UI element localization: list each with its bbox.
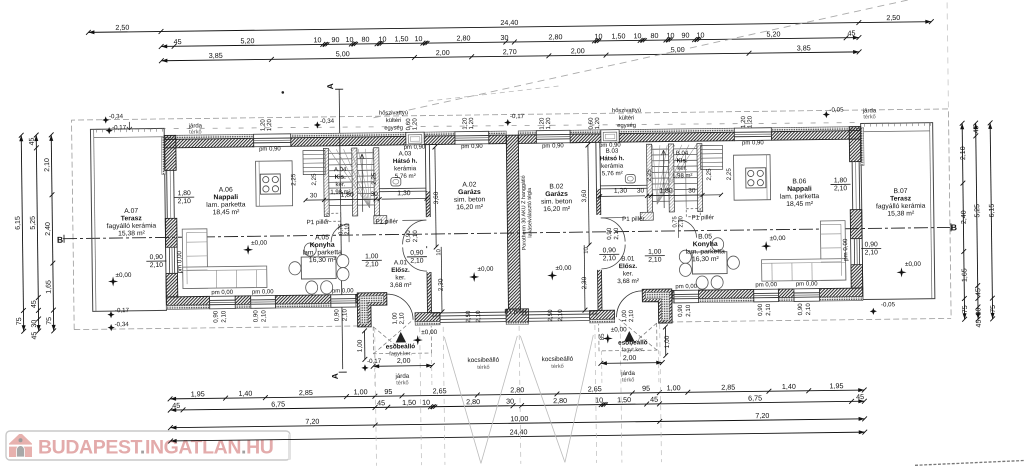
south wall A window 1 — [210, 296, 236, 309]
kitchen counter A with stove — [256, 161, 293, 206]
south wall A window 2 — [251, 296, 276, 309]
west corner outer insulation strip — [161, 136, 165, 174]
svg-text:B.04: B.04 — [676, 151, 689, 157]
stair block B — [697, 144, 703, 212]
garage A west wall — [424, 145, 427, 217]
svg-text:Nappali: Nappali — [787, 186, 812, 193]
svg-text:pm 0,90: pm 0,90 — [742, 140, 764, 146]
svg-text:1,80: 1,80 — [178, 190, 192, 197]
dim row bottom 7,20 / 10,00 / 7,20 — [170, 419, 864, 428]
svg-text:2,50: 2,50 — [886, 13, 900, 22]
east wall segments — [849, 127, 861, 162]
svg-text:±0,00: ±0,00 — [905, 261, 921, 268]
svg-text:kültéri: kültéri — [386, 118, 402, 124]
svg-text:2,80: 2,80 — [466, 397, 480, 406]
svg-text:lam. parketta: lam. parketta — [780, 193, 820, 201]
svg-text:térkő: térkő — [622, 377, 635, 383]
svg-text:Hátsó h.: Hátsó h. — [393, 158, 418, 165]
terrace A edge arrow — [127, 122, 132, 130]
svg-text:egység: egység — [617, 123, 636, 129]
svg-text:45: 45 — [650, 395, 658, 404]
room A.03 south partition — [379, 187, 425, 190]
svg-text:B.06: B.06 — [792, 178, 806, 185]
svg-text:pm 0,00: pm 0,00 — [842, 238, 849, 261]
svg-text:16,30 m²: 16,30 m² — [309, 257, 337, 264]
svg-text:P1 pillér: P1 pillér — [307, 219, 329, 226]
svg-text:80: 80 — [361, 35, 369, 44]
walkway dashed edge along north facade — [96, 120, 857, 133]
section line A-A — [339, 89, 343, 369]
svg-text:2,10: 2,10 — [410, 258, 424, 265]
south wall B window 2 — [754, 289, 779, 302]
west wall window 0,90 — [166, 247, 178, 273]
svg-text:15,38 m²: 15,38 m² — [887, 210, 915, 217]
svg-text:3,68 m²: 3,68 m² — [617, 278, 639, 285]
dim 1,00 porch A vertical — [364, 331, 366, 359]
svg-text:fagyt.ker.: fagyt.ker. — [622, 347, 645, 353]
stair ladder piece A — [303, 150, 325, 174]
svg-text:pm 0,00: pm 0,00 — [675, 284, 697, 290]
svg-text:5,00: 5,00 — [336, 49, 350, 58]
porch A entrance door arc — [387, 294, 413, 320]
svg-text:30: 30 — [31, 320, 38, 328]
svg-text:1,98 m²: 1,98 m² — [672, 173, 692, 179]
svg-text:B.07: B.07 — [893, 188, 907, 195]
svg-text:1,50: 1,50 — [402, 398, 416, 407]
svg-text:A.07: A.07 — [124, 208, 138, 215]
south wall B window 1 — [674, 290, 699, 303]
svg-text:2,10: 2,10 — [475, 310, 482, 323]
svg-text:30: 30 — [310, 192, 318, 199]
porch A dashed slab — [373, 320, 431, 354]
west wall terrace door 1,80 — [166, 170, 169, 218]
svg-text:2,10: 2,10 — [648, 257, 662, 264]
dim col left inner 2,10/2,40/1,65/75 — [51, 135, 53, 331]
svg-text:hőszivattyú: hőszivattyú — [379, 110, 408, 116]
svg-text:ker.: ker. — [395, 274, 406, 281]
svg-text:1,30: 1,30 — [614, 188, 628, 195]
svg-text:járda: járda — [620, 370, 635, 377]
svg-text:2,10: 2,10 — [613, 227, 620, 240]
svg-text:10: 10 — [666, 31, 674, 40]
svg-text:járda: járda — [394, 373, 409, 380]
svg-text:fagyálló kerámia: fagyálló kerámia — [107, 223, 157, 231]
svg-text:2,10: 2,10 — [865, 249, 879, 256]
svg-text:45: 45 — [377, 398, 385, 407]
svg-text:2,00: 2,00 — [436, 48, 450, 57]
svg-text:3,60: 3,60 — [433, 191, 440, 204]
svg-text:1,00: 1,00 — [664, 335, 671, 348]
svg-text:2,65: 2,65 — [433, 386, 447, 395]
svg-text:A.03: A.03 — [399, 150, 412, 157]
room B.03 south partition — [600, 184, 646, 187]
dim row bottom total 24,40 — [171, 432, 865, 441]
svg-text:1,95: 1,95 — [829, 381, 843, 390]
svg-text:2,10: 2,10 — [260, 310, 267, 323]
south-east wall corner at porch B — [642, 289, 672, 323]
svg-text:Garázs: Garázs — [545, 191, 568, 198]
svg-text:2,10: 2,10 — [344, 223, 350, 234]
svg-text:térkő: térkő — [477, 365, 490, 371]
svg-text:1,20: 1,20 — [468, 117, 475, 130]
svg-text:2,10: 2,10 — [685, 304, 692, 317]
svg-text:45: 45 — [975, 288, 982, 296]
svg-text:16,20 m²: 16,20 m² — [456, 204, 484, 211]
north wall heat-pump recess B — [601, 130, 619, 143]
svg-text:16,20 m²: 16,20 m² — [543, 206, 571, 213]
svg-text:1,00: 1,00 — [365, 253, 379, 260]
svg-text:kerámia: kerámia — [394, 165, 417, 172]
svg-text:esőbeálló: esőbeálló — [386, 343, 416, 350]
svg-text:2,10: 2,10 — [44, 158, 51, 172]
svg-text:30: 30 — [500, 33, 508, 42]
svg-text:±0,00: ±0,00 — [611, 326, 627, 333]
svg-text:1,40: 1,40 — [238, 389, 252, 398]
stair block A — [323, 148, 329, 216]
garage A doors arcs — [402, 220, 426, 244]
svg-text:3,85: 3,85 — [209, 51, 223, 60]
svg-text:P1 pillér: P1 pillér — [692, 214, 714, 221]
terrace B.07 outline — [861, 123, 935, 300]
north arrow triangle porch A — [396, 332, 407, 343]
south wall B segments — [672, 290, 674, 299]
north wall window A2 pm 0,90 — [455, 131, 489, 144]
svg-text:24,40: 24,40 — [500, 18, 518, 27]
svg-text:45: 45 — [173, 37, 181, 46]
east wall window 0,90 — [851, 239, 863, 265]
svg-text:1,00: 1,00 — [648, 249, 662, 256]
carport front edge lines — [440, 318, 506, 321]
svg-text:2,10: 2,10 — [805, 303, 812, 316]
svg-text:2,10: 2,10 — [412, 230, 419, 243]
svg-text:3,68 m²: 3,68 m² — [390, 282, 412, 289]
svg-text:0,90: 0,90 — [797, 303, 804, 316]
svg-text:pm 0,00: pm 0,00 — [211, 290, 233, 296]
svg-text:pm 0,00: pm 0,00 — [796, 281, 818, 287]
svg-text:B: B — [951, 222, 957, 232]
svg-text:2,10: 2,10 — [765, 303, 772, 316]
svg-text:2,25: 2,25 — [311, 173, 318, 186]
svg-text:7,20: 7,20 — [755, 411, 769, 420]
garage A door opening — [432, 311, 509, 314]
svg-text:30: 30 — [371, 191, 379, 198]
watermark logo box budapest.ingatlan.hu — [6, 431, 290, 460]
svg-text:1,00: 1,00 — [667, 383, 681, 392]
svg-text:1,00: 1,00 — [357, 339, 364, 352]
svg-text:A.06: A.06 — [219, 187, 233, 194]
dim 2,00 porch B — [601, 362, 662, 365]
svg-text:Garázs: Garázs — [458, 189, 481, 196]
svg-text:1,20: 1,20 — [545, 117, 552, 130]
level marks ±0,00 stars — [108, 276, 118, 286]
svg-text:2,10: 2,10 — [220, 310, 227, 323]
south wall A window 3 — [331, 294, 356, 307]
carport swept-path V lines — [444, 336, 481, 463]
svg-text:±0,00: ±0,00 — [251, 240, 267, 247]
svg-text:2,10: 2,10 — [178, 198, 192, 205]
dim row bottom 45 / 6,75 / ... / 6,75 / 45 — [170, 401, 864, 410]
svg-text:térkő: térkő — [396, 380, 409, 386]
page edge artifact bottom right — [915, 461, 1024, 466]
svg-text:sim. beton: sim. beton — [541, 198, 573, 205]
svg-text:10: 10 — [594, 32, 602, 41]
svg-text:2,10: 2,10 — [960, 146, 967, 160]
section line B-B — [63, 227, 950, 238]
svg-text:10: 10 — [345, 35, 353, 44]
svg-text:6,15: 6,15 — [15, 216, 22, 230]
svg-text:lam. parketta: lam. parketta — [206, 201, 246, 209]
svg-text:1,98 m²: 1,98 m² — [330, 190, 350, 196]
svg-text:1,80: 1,80 — [659, 188, 673, 195]
svg-text:Terasz: Terasz — [121, 215, 143, 222]
north wall hatched segments (B side) — [518, 131, 536, 135]
south-west wall corner at porch A — [357, 293, 387, 327]
svg-text:30: 30 — [637, 188, 645, 195]
svg-text:±0,00: ±0,00 — [477, 266, 493, 273]
garage B east wall — [599, 142, 602, 214]
outer dashed property boundary — [72, 109, 952, 330]
svg-text:0,90: 0,90 — [150, 254, 164, 261]
svg-text:-0,34: -0,34 — [109, 113, 124, 120]
dining table A.05 — [301, 257, 336, 279]
svg-text:fagyálló kerámia: fagyálló kerámia — [876, 203, 926, 211]
svg-text:2,25: 2,25 — [726, 168, 733, 181]
svg-text:5,76 m²: 5,76 m² — [602, 170, 623, 177]
svg-text:45: 45 — [856, 392, 864, 401]
svg-text:pm 0,90: pm 0,90 — [461, 144, 483, 150]
svg-text:2,00: 2,00 — [571, 46, 585, 55]
kitchen counter B with stove — [734, 155, 771, 200]
svg-text:hőszivattyú: hőszivattyú — [612, 108, 641, 114]
svg-text:1,50: 1,50 — [611, 31, 625, 40]
svg-text:2,80: 2,80 — [553, 396, 567, 405]
svg-text:2,10: 2,10 — [150, 262, 164, 269]
svg-text:2,80: 2,80 — [548, 32, 562, 41]
svg-text:-0,17: -0,17 — [112, 124, 127, 131]
svg-text:kerámia: kerámia — [601, 163, 624, 170]
dim col right inner — [962, 123, 964, 319]
double tick marks rowB — [430, 405, 434, 409]
svg-text:0,90: 0,90 — [677, 304, 684, 317]
svg-text:2,40: 2,40 — [961, 210, 968, 224]
svg-text:2,70: 2,70 — [503, 47, 517, 56]
chairs B.05 — [727, 256, 739, 269]
south wall A segments — [166, 296, 209, 305]
svg-text:-0,17: -0,17 — [510, 113, 525, 120]
svg-text:10,00: 10,00 — [510, 414, 528, 423]
svg-text:2,10: 2,10 — [557, 309, 564, 322]
sofa A.06 — [182, 229, 207, 289]
svg-text:P1 pillér: P1 pillér — [376, 218, 398, 225]
svg-text:Konyha: Konyha — [693, 241, 718, 248]
svg-text:0,90: 0,90 — [252, 310, 259, 323]
svg-text:1,50: 1,50 — [394, 34, 408, 43]
svg-text:30: 30 — [688, 187, 696, 194]
survey diamonds with levels — [102, 116, 109, 123]
svg-text:1,20: 1,20 — [747, 115, 754, 128]
svg-text:A.01: A.01 — [394, 259, 408, 266]
svg-text:±0,00: ±0,00 — [770, 235, 786, 242]
west wall segments — [164, 135, 176, 170]
door arc kitchen B (B.01 to B.05) — [678, 220, 696, 238]
svg-text:térkő: térkő — [551, 364, 564, 370]
svg-text:95: 95 — [384, 387, 392, 396]
svg-text:-0,34: -0,34 — [115, 321, 130, 328]
svg-text:1,95: 1,95 — [191, 389, 205, 398]
dim col left middle 45/5,25/45/30/45 — [36, 135, 38, 331]
svg-text:sim. beton: sim. beton — [454, 196, 486, 203]
svg-text:1,00: 1,00 — [354, 387, 368, 396]
sofa B.06 — [820, 221, 845, 281]
svg-text:90: 90 — [331, 35, 339, 44]
svg-text:A.02: A.02 — [462, 181, 476, 188]
svg-text:80: 80 — [650, 31, 658, 40]
svg-text:0,90: 0,90 — [410, 250, 424, 257]
svg-text:45: 45 — [31, 300, 38, 308]
dining table B.05 — [692, 252, 727, 274]
svg-text:-0,17: -0,17 — [115, 307, 130, 314]
svg-text:±0,00: ±0,00 — [115, 272, 131, 279]
svg-text:0,90: 0,90 — [757, 303, 764, 316]
svg-text:-0,17: -0,17 — [367, 358, 382, 365]
north wall window B2 pm 0,90 — [734, 128, 771, 141]
svg-text:2,25: 2,25 — [290, 173, 297, 186]
svg-text:Konyha: Konyha — [310, 242, 335, 249]
svg-text:24,40: 24,40 — [509, 427, 527, 436]
porch B dashed slab — [599, 317, 657, 351]
svg-text:Terasz: Terasz — [890, 195, 912, 202]
porch A pier — [415, 312, 440, 321]
svg-text:2,85: 2,85 — [721, 383, 735, 392]
east wall terrace door 1,80 — [851, 162, 854, 210]
svg-text:5,20: 5,20 — [766, 29, 780, 38]
svg-text:1,30: 1,30 — [397, 190, 411, 197]
svg-text:0,90: 0,90 — [603, 247, 617, 254]
svg-text:2,80: 2,80 — [456, 33, 470, 42]
svg-text:Nappali: Nappali — [214, 194, 239, 201]
svg-text:2,10: 2,10 — [834, 185, 848, 192]
svg-text:esőbeálló: esőbeálló — [618, 339, 648, 346]
north arrow triangle porch B — [624, 331, 635, 342]
svg-text:1,65: 1,65 — [46, 280, 53, 294]
svg-text:1,20: 1,20 — [412, 118, 419, 131]
svg-text:0,90: 0,90 — [865, 241, 879, 248]
svg-text:1,40: 1,40 — [782, 382, 796, 391]
svg-text:75: 75 — [46, 317, 53, 325]
svg-text:45: 45 — [29, 137, 36, 145]
svg-text:kocsibeálló: kocsibeálló — [542, 356, 574, 363]
svg-text:B.03: B.03 — [606, 148, 619, 155]
svg-text:A.04: A.04 — [334, 167, 347, 173]
dim col left outer 6,15/75 — [21, 135, 23, 331]
svg-text:1,20: 1,20 — [266, 118, 273, 131]
stair dim line A 30/1,80/30 + 1,30 — [306, 198, 380, 201]
svg-text:2,25: 2,25 — [371, 172, 378, 185]
svg-text:pm 0,00: pm 0,00 — [755, 282, 777, 288]
dim col right outer — [990, 123, 992, 319]
north wall window A1 pm 0,90 — [254, 134, 291, 147]
svg-text:1,50: 1,50 — [617, 395, 631, 404]
washbasin A.03 — [391, 177, 401, 186]
svg-text:2,25: 2,25 — [646, 169, 653, 182]
svg-text:6,15: 6,15 — [989, 204, 996, 218]
svg-text:A: A — [325, 83, 335, 89]
svg-text:10: 10 — [595, 395, 603, 404]
svg-text:2,80: 2,80 — [510, 385, 524, 394]
svg-text:6,75: 6,75 — [748, 393, 762, 402]
svg-text:90: 90 — [681, 31, 689, 40]
double tick marks row2 — [323, 42, 327, 46]
svg-text:Kis.: Kis. — [677, 158, 688, 164]
svg-text:5,76 m²: 5,76 m² — [395, 173, 416, 180]
north wall heat-pump recess A — [406, 132, 424, 145]
svg-text:0,90: 0,90 — [212, 310, 219, 323]
svg-text:75: 75 — [16, 317, 23, 325]
north wall window B1 pm 0,90 — [536, 130, 570, 143]
svg-text:10: 10 — [422, 398, 430, 407]
svg-text:Kis.: Kis. — [335, 175, 346, 181]
svg-text:2,10: 2,10 — [341, 309, 348, 322]
svg-text:egység: egység — [384, 125, 403, 131]
svg-text:45: 45 — [973, 125, 980, 133]
svg-text:ker.: ker. — [677, 166, 687, 172]
porch B pier — [589, 310, 614, 319]
stair dim line B — [647, 194, 721, 197]
svg-text:5,20: 5,20 — [240, 36, 254, 45]
svg-text:15,38 m²: 15,38 m² — [118, 230, 146, 237]
dim 2,00 porch A — [373, 365, 432, 368]
svg-text:2,50: 2,50 — [547, 309, 554, 322]
svg-text:2,00: 2,00 — [397, 358, 411, 365]
svg-text:2,10: 2,10 — [365, 261, 379, 268]
svg-text:45: 45 — [976, 320, 983, 328]
svg-text:2,25: 2,25 — [706, 168, 713, 181]
svg-text:30: 30 — [975, 308, 982, 316]
svg-text:45: 45 — [172, 401, 180, 410]
terrace A.07 outline — [90, 128, 166, 311]
svg-text:pm 0,00: pm 0,00 — [252, 289, 274, 295]
svg-text:lam. parketta: lam. parketta — [686, 248, 726, 256]
chairs A.05 — [289, 262, 301, 275]
svg-text:2,10: 2,10 — [398, 312, 405, 325]
east corner outer insulation strip — [860, 128, 864, 166]
svg-text:B: B — [57, 235, 63, 245]
svg-text:pm 0,90: pm 0,90 — [259, 146, 281, 152]
svg-text:18,45 m²: 18,45 m² — [786, 201, 814, 208]
faint property line continuation top right — [947, 2, 948, 108]
svg-text:6,75: 6,75 — [271, 400, 285, 409]
svg-text:2,50: 2,50 — [115, 23, 129, 32]
small survey dot — [281, 91, 284, 94]
svg-text:lakáselválasztó tégla: lakáselválasztó tégla — [527, 188, 534, 238]
dim row top 3,85 / 5,00 / 2,00 / 2,70 / 2,00 / 5,00 / 3,85 — [161, 52, 859, 61]
svg-text:10: 10 — [414, 34, 422, 43]
svg-text:2,50: 2,50 — [465, 310, 472, 323]
svg-text:45: 45 — [31, 332, 38, 340]
svg-text:30: 30 — [506, 397, 514, 406]
svg-text:85: 85 — [599, 333, 606, 341]
dim row top detailed 45..5,20..30..5,20..45 — [161, 38, 859, 47]
porch B entrance door arc — [616, 291, 642, 317]
carport center pier P1 — [506, 309, 529, 322]
svg-text:lam. parketta: lam. parketta — [303, 249, 343, 257]
garage B door opening — [521, 310, 598, 313]
svg-text:0,90: 0,90 — [333, 309, 340, 322]
svg-text:5,25: 5,25 — [30, 216, 37, 230]
dim row top overall 2,50 / 24,40 / 2,50 — [88, 22, 931, 33]
svg-text:5,25: 5,25 — [974, 204, 981, 218]
north wall hatched segments (A side) — [164, 134, 253, 139]
